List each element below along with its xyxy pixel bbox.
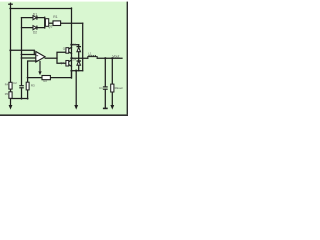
wire bracket x=21 vertical long xyxy=(21,18,23,86)
wire op-amp input y=58 xyxy=(22,57,36,59)
wire cap C2 lower stub xyxy=(21,88,23,99)
ground arrow left xyxy=(9,105,13,110)
diode D4 xyxy=(77,61,82,65)
wire load resistor drop xyxy=(111,58,113,105)
svg-text:C1: C1 xyxy=(99,86,103,90)
wire divider to ground xyxy=(10,98,12,105)
wire diode D3 stubs xyxy=(78,45,80,59)
wire op-amp input y=54.5 xyxy=(22,54,36,56)
diode D1 xyxy=(33,16,37,20)
wire R1 to x=83 corner xyxy=(61,22,83,24)
diode D3 xyxy=(77,47,82,52)
wire rail y=58.2 xyxy=(72,57,88,59)
wire x=83 vertical xyxy=(82,23,84,70)
wire rail y=27 xyxy=(22,27,45,29)
wire output y=58.2 xyxy=(97,57,122,59)
border bottom dark xyxy=(0,114,128,116)
resistor R4 xyxy=(9,82,12,89)
wire divider segment xyxy=(10,89,12,92)
svg-text:R3: R3 xyxy=(31,83,35,87)
resistor R5 xyxy=(9,92,12,99)
wire driver split bracket xyxy=(57,52,66,63)
capacitor C2 xyxy=(19,85,24,88)
resistor R6 xyxy=(111,84,114,92)
diode D2 xyxy=(33,26,37,30)
wire x=71 vertical xyxy=(71,8,73,78)
wire Vin vertical rail x=10 xyxy=(10,3,12,82)
resistor R2 xyxy=(42,76,50,80)
svg-text:R1: R1 xyxy=(53,15,57,19)
svg-text:Rload: Rload xyxy=(115,86,123,90)
svg-text:D1: D1 xyxy=(33,12,37,16)
ground arrow middle xyxy=(74,105,78,110)
resistor R3 xyxy=(26,82,29,90)
inductor L1 xyxy=(88,55,97,59)
svg-text:Vout: Vout xyxy=(112,54,119,58)
ground arrow right xyxy=(110,105,114,110)
wire y=50 rail xyxy=(11,50,35,54)
wire Q2 collector emitter stubs xyxy=(69,60,72,66)
border right dark xyxy=(127,2,128,115)
svg-text:Q2: Q2 xyxy=(60,61,64,65)
background xyxy=(0,0,128,116)
wire rail y=17 xyxy=(22,17,45,19)
node VIN terminal cross xyxy=(9,3,12,5)
svg-text:R2: R2 xyxy=(43,79,47,83)
wire rail y=70.7 xyxy=(72,70,83,72)
border top white xyxy=(0,0,128,2)
resistor R1 xyxy=(53,21,61,26)
svg-text:Q1: Q1 xyxy=(63,47,67,51)
transistor Q1 xyxy=(66,48,69,54)
svg-text:L1: L1 xyxy=(88,52,92,56)
wire op-amp input y=61 xyxy=(28,61,36,99)
transistor Q3 xyxy=(45,17,49,29)
op-amp ground arrow xyxy=(38,61,41,75)
wire output cap C1 drop xyxy=(104,58,106,108)
op-amp U1 xyxy=(36,52,45,63)
wire bottom tap y=98.5 xyxy=(11,98,28,100)
wire feedback y=77.6 xyxy=(28,71,72,78)
wire rail y=44.7 xyxy=(72,44,79,46)
wire op-amp output xyxy=(45,57,57,59)
wire mid ground drop x=76 xyxy=(75,71,77,106)
node junction dots xyxy=(9,44,113,100)
wire top rail y=8 xyxy=(10,8,72,10)
svg-text:C2: C2 xyxy=(13,81,17,85)
svg-text:D2: D2 xyxy=(33,30,37,34)
wire diode D4 stubs xyxy=(78,58,80,70)
wire Q3 output to R1 xyxy=(49,22,53,24)
ground bar xyxy=(103,108,108,110)
wire Q1 collector emitter stubs xyxy=(69,47,72,53)
transistor Q2 xyxy=(66,61,69,67)
capacitor C1 xyxy=(103,86,108,89)
svg-text:Q3: Q3 xyxy=(48,24,53,28)
